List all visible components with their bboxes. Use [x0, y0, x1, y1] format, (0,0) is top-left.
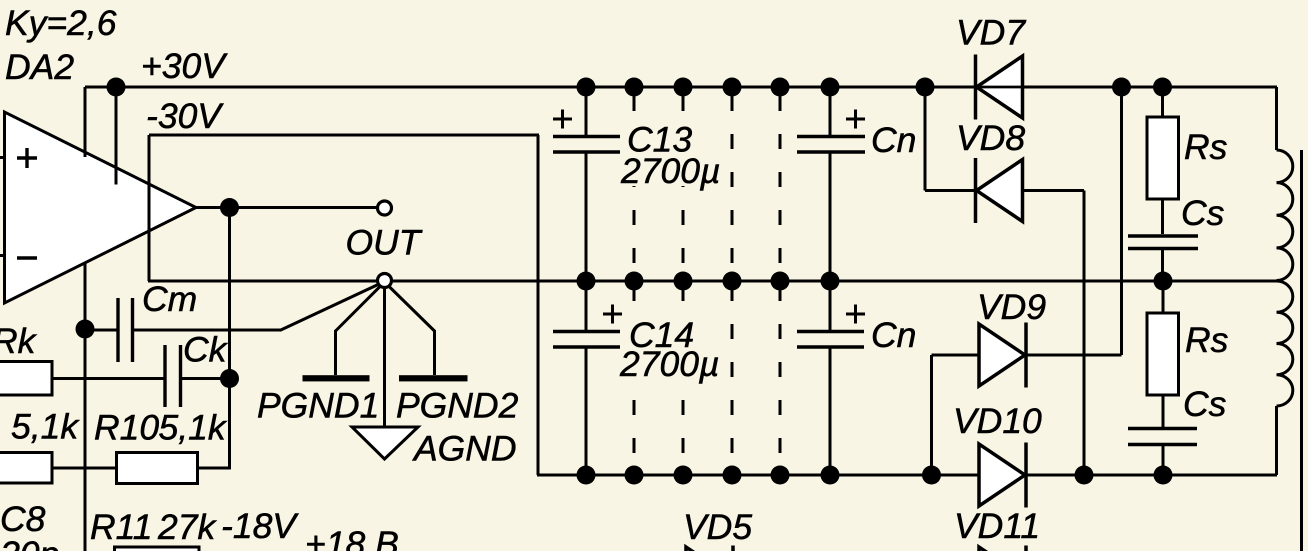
wire -30V horizontal [149, 134, 539, 137]
svg-text:Rs: Rs [1185, 320, 1229, 360]
svg-text:Cn: Cn [871, 315, 916, 355]
wire VD9 to top rail [1120, 87, 1123, 355]
diode VD10 [979, 443, 1026, 508]
junction bottom rail 9 [1154, 466, 1173, 485]
junction top rail 8 [1112, 78, 1131, 97]
wire Rs1 to Cs1 [1161, 199, 1164, 234]
svg-text:PGND1: PGND1 [257, 386, 379, 426]
junction output rail 2 [625, 272, 644, 291]
svg-text:PGND2: PGND2 [396, 386, 519, 426]
svg-text:-30V: -30V [146, 96, 224, 136]
svg-text:VD10: VD10 [953, 401, 1042, 441]
junction Ck [220, 369, 239, 388]
resistor Rs upper [1147, 117, 1179, 199]
wire 5,1k to R10 [52, 467, 117, 470]
wire VD9 anode [932, 354, 980, 357]
junction top rail 3 [674, 78, 693, 97]
diode VD7 [976, 55, 1023, 120]
junction top rail 6 [821, 78, 840, 97]
wire op-amp +supply pin left [84, 87, 87, 157]
resistor Rk [0, 362, 52, 396]
wire Cm left [85, 329, 117, 332]
wire Cn2 column [829, 281, 832, 330]
junction bottom rail 2 [625, 466, 644, 485]
svg-text:27k: 27k [157, 507, 217, 547]
wire output middle rail [148, 280, 1277, 283]
wire Rs1 top [1161, 87, 1164, 117]
wire R10 to junction riser [197, 467, 231, 470]
wire OUT to PGND1 diagonal [336, 282, 385, 331]
svg-text:+30V: +30V [141, 46, 228, 86]
junction output rail 1 [577, 272, 596, 291]
junction Cm [76, 320, 95, 339]
wire VD8 branch down [924, 87, 927, 191]
svg-text:VD5: VD5 [683, 507, 752, 547]
wire VD9 anode riser [930, 355, 933, 475]
wire VD8 anode [925, 189, 976, 192]
svg-text:2700µ: 2700µ [619, 344, 719, 384]
wire VD8 cathode to drop [1023, 189, 1084, 192]
junction bottom rail 7 [922, 466, 941, 485]
svg-text:Rk: Rk [0, 321, 38, 361]
wire op-amp +supply pin right [115, 87, 118, 185]
junction bottom rail 3 [674, 466, 693, 485]
svg-text:C8: C8 [0, 499, 46, 539]
wire winding to bottom rail [1275, 406, 1278, 475]
resistor R10 [117, 453, 198, 484]
wire bottom rail [537, 474, 1277, 477]
junction top rail 2 [625, 78, 644, 97]
resistor 5,1k input [0, 453, 52, 484]
wire VD9 cathode [1025, 354, 1122, 357]
svg-text:R11: R11 [90, 507, 153, 547]
wire Rk to Ck [52, 377, 164, 380]
diode VD9 [979, 323, 1026, 388]
wire C13 column [585, 87, 588, 135]
capacitor Cm [116, 298, 119, 362]
wire dashed column 1 [633, 96, 636, 475]
junction bottom rail 6 [821, 466, 840, 485]
svg-text:Cm: Cm [142, 279, 197, 319]
svg-text:5,1k: 5,1k [11, 407, 80, 447]
op-amp DA2 [5, 112, 197, 303]
wire dashed column 3 [731, 96, 734, 475]
ground AGND [352, 427, 418, 459]
wire Rs2 to Cs2 [1162, 395, 1165, 427]
capacitor Ck [163, 345, 166, 407]
node OUT upper terminal [378, 201, 392, 215]
ground PGND1 [303, 375, 370, 381]
svg-text:Cn: Cn [871, 120, 916, 160]
junction output rail 6 [821, 272, 840, 291]
svg-text:DA2: DA2 [5, 47, 74, 87]
wire secondary winding line [1300, 150, 1303, 551]
junction bottom rail 1 [577, 466, 596, 485]
svg-text:VD8: VD8 [956, 118, 1025, 158]
capacitor C13 [553, 135, 620, 139]
svg-text:Cs: Cs [1181, 193, 1225, 233]
svg-text:VD7: VD7 [956, 13, 1026, 53]
resistor Rs lower [1147, 313, 1179, 395]
svg-text:2700µ: 2700µ [620, 151, 720, 191]
wire op-amp output to OUT [196, 206, 380, 209]
svg-text:VD11: VD11 [954, 506, 1040, 546]
wire Cs2 to bottom rail [1162, 446, 1165, 475]
junction top rail 4 [723, 78, 742, 97]
svg-text:OUT: OUT [346, 223, 423, 263]
svg-text:VD9: VD9 [977, 287, 1046, 327]
junction output rail 7 [1154, 272, 1173, 291]
wire OUT to AGND vertical [383, 282, 386, 428]
wire +30V top rail [85, 86, 1277, 89]
ground PGND2 [399, 375, 468, 381]
svg-text:+18 В: +18 В [305, 524, 399, 551]
diode VD8 [976, 158, 1023, 223]
wire Rs2 top [1162, 281, 1165, 313]
diode VD11 [979, 546, 1026, 551]
junction top rail 5 [771, 78, 790, 97]
junction top rail 1 [577, 78, 596, 97]
inductor winding upper [1277, 150, 1293, 281]
junction bottom rail 4 [723, 466, 742, 485]
capacitor C14 [553, 330, 620, 334]
wire dashed column 4 [779, 96, 782, 475]
wire Cm diagonal to OUT node [280, 282, 385, 331]
wire C14 column [585, 281, 588, 330]
capacitor Cs lower [1128, 427, 1197, 431]
wire top rail to winding [1275, 87, 1278, 150]
junction +30V [107, 78, 126, 97]
svg-text:R10: R10 [94, 408, 159, 448]
wire dashed column 2 [682, 96, 685, 475]
junction output rail 4 [723, 272, 742, 291]
junction top rail 7 [916, 78, 935, 97]
wire Cn1 column [829, 87, 832, 135]
junction top rail 9 [1153, 78, 1172, 97]
label C13 backing [622, 120, 722, 186]
junction output rail 5 [771, 272, 790, 291]
wire output junction vertical [228, 208, 231, 470]
junction output rail 3 [674, 272, 693, 291]
wire -30V vertical to output rail [148, 135, 151, 281]
wire Cs1 to output rail [1161, 250, 1164, 281]
wire inverting branch vertical [84, 262, 87, 551]
svg-text:Cs: Cs [1183, 384, 1227, 424]
wire Ck to junction [182, 377, 230, 380]
capacitor Cn upper [797, 135, 865, 139]
label C14 backing [622, 315, 722, 381]
resistor R11 [115, 547, 200, 551]
wire VD8 drop to bottom rail [1083, 191, 1086, 476]
capacitor Cn lower [797, 330, 864, 334]
svg-text:Ky=2,6: Ky=2,6 [5, 3, 117, 43]
svg-text:5,1k: 5,1k [159, 408, 228, 448]
wire -30V drop to bottom rail [537, 135, 540, 475]
node OUT lower terminal [378, 274, 392, 288]
diode VD5 [686, 546, 733, 551]
wire OUT to PGND2 diagonal [385, 282, 435, 331]
svg-text:AGND: AGND [412, 429, 517, 469]
svg-text:Rs: Rs [1184, 127, 1228, 167]
junction bottom rail 5 [771, 466, 790, 485]
wire Cm right [133, 329, 281, 332]
inductor winding lower [1277, 281, 1293, 406]
svg-text:30p: 30p [0, 534, 59, 551]
junction bottom rail 8 [1075, 466, 1094, 485]
svg-text:-18V: -18V [221, 506, 299, 546]
svg-text:Ck: Ck [183, 330, 229, 370]
junction op-amp output [220, 198, 239, 217]
capacitor Cs upper [1128, 234, 1198, 238]
